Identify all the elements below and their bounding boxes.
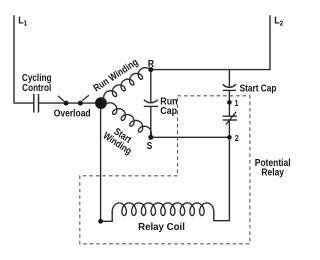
wire common node down to relay coil corner	[100, 103, 102, 221]
potential relay dashed enclosure	[80, 96, 250, 244]
node 2	[227, 135, 232, 140]
wire relay coil right lead up to node 2	[214, 137, 230, 220]
svg-text:1: 1	[235, 99, 240, 109]
svg-text:S: S	[147, 140, 153, 151]
node: relay coil bottom corner	[98, 219, 103, 224]
wire S to node 2	[151, 136, 230, 138]
node S	[148, 135, 153, 140]
svg-text:L1: L1	[18, 15, 27, 28]
wire from cycling control through overload to common node	[39, 102, 101, 104]
wire L1 lead down to main line	[14, 15, 33, 103]
svg-text:Relay Coil: Relay Coil	[138, 222, 185, 233]
wire relay contact to node 2	[228, 120, 230, 137]
node 1	[227, 100, 232, 105]
svg-text:Overload: Overload	[54, 108, 91, 119]
winding: start winding	[105, 103, 152, 137]
svg-text:2: 2	[235, 134, 240, 144]
svg-text:Cap: Cap	[160, 106, 177, 118]
wire node 1 to relay contact	[228, 102, 230, 116]
wire relay coil left lead	[101, 211, 113, 221]
svg-text:R: R	[148, 58, 154, 69]
relay contact between 1 and 2	[223, 112, 237, 125]
wire start-cap branch from top wire	[228, 70, 230, 88]
wire R down to run cap	[150, 70, 152, 103]
svg-text:Relay: Relay	[261, 167, 284, 178]
capacitor: start cap	[223, 84, 237, 90]
capacitor: cycling control	[34, 94, 39, 113]
svg-text:Start Cap: Start Cap	[240, 83, 277, 94]
wire run cap to S	[150, 106, 152, 137]
overload contacts	[58, 95, 89, 105]
svg-text:L2: L2	[274, 15, 283, 28]
inductor: relay coil	[112, 203, 214, 216]
wire top run: R to L2 corner and L2 lead	[151, 15, 270, 69]
svg-text:StartWinding: StartWinding	[101, 122, 139, 157]
node: motor common	[95, 97, 107, 109]
svg-text:Control: Control	[22, 82, 51, 93]
capacitor: run cap	[144, 100, 158, 107]
winding: run winding	[104, 68, 151, 101]
wire start cap to node 1	[228, 90, 230, 102]
node R	[148, 67, 153, 72]
